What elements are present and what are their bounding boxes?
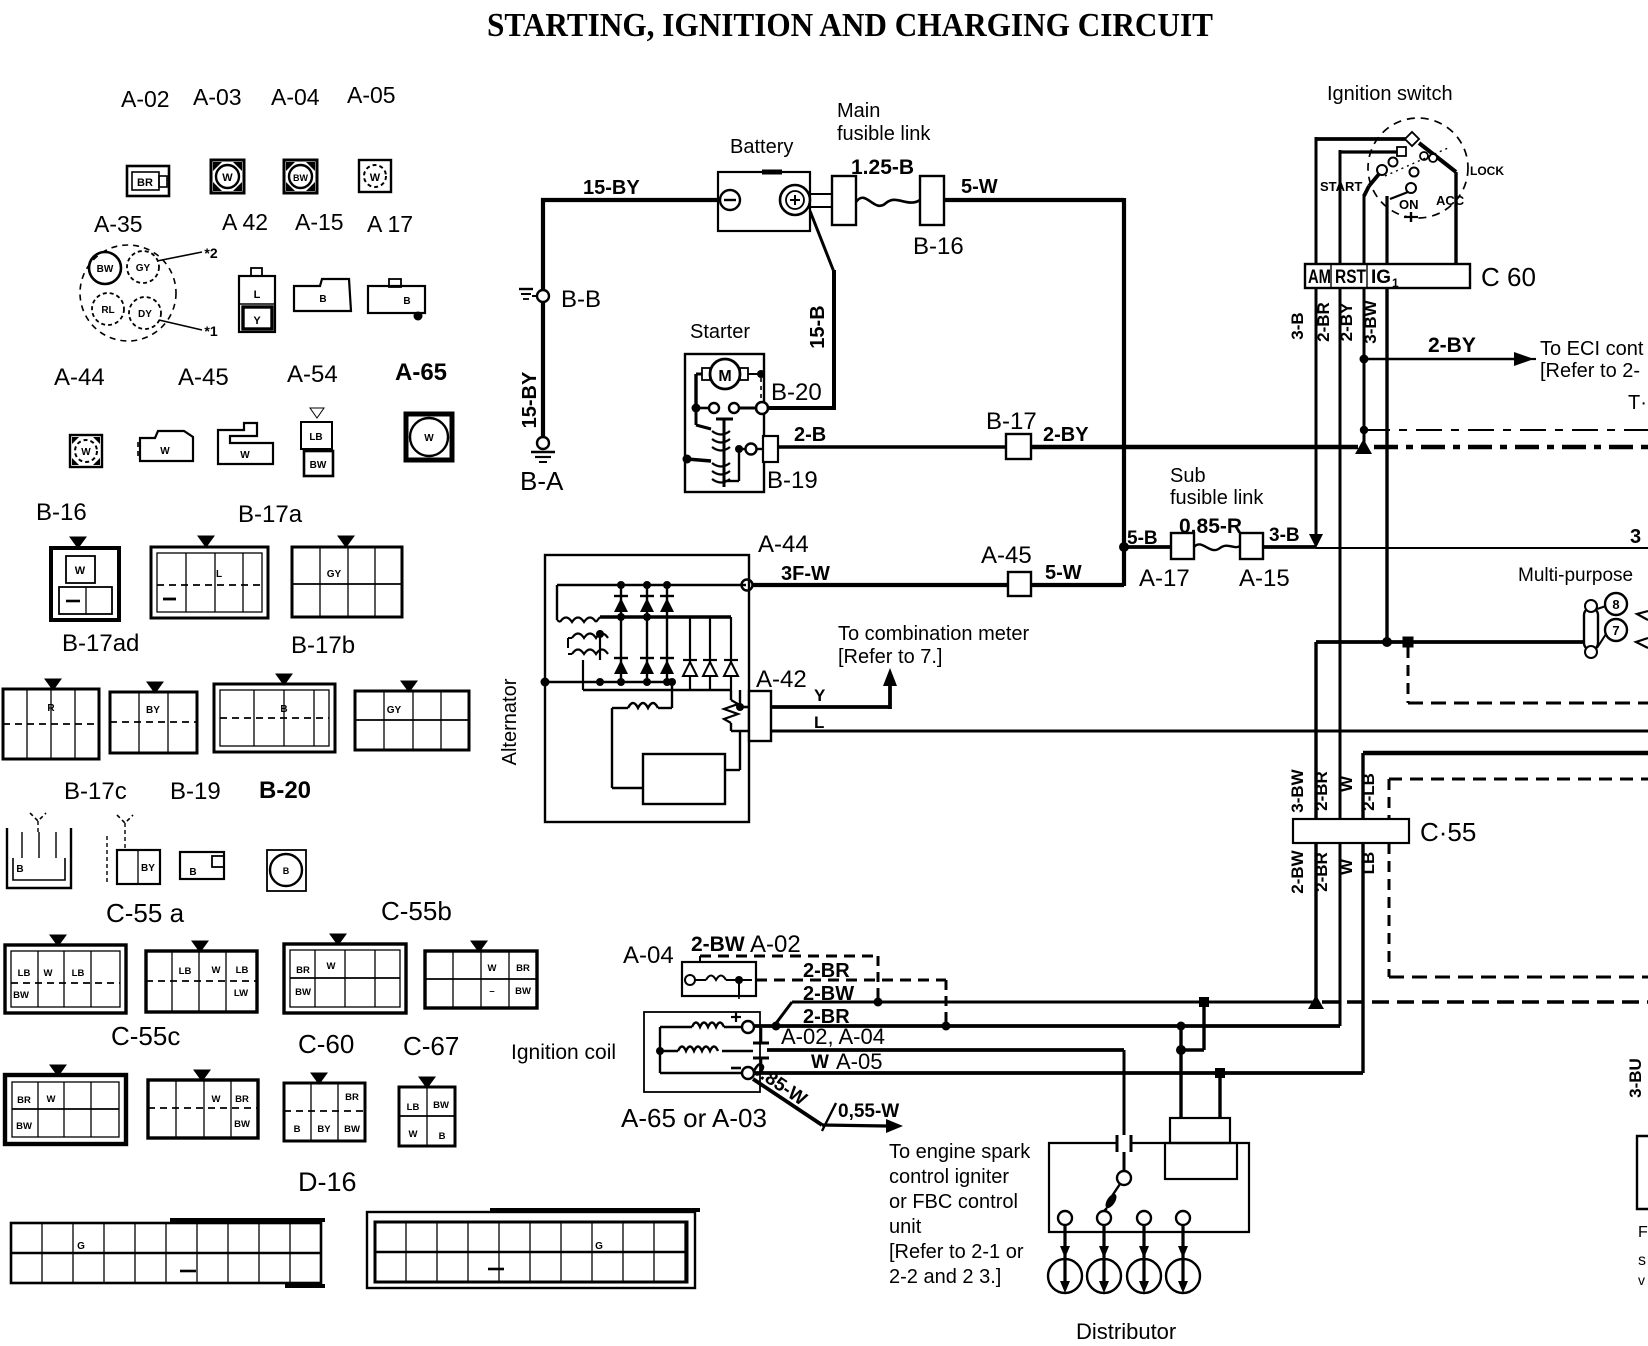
svg-text:A-04: A-04 xyxy=(271,84,320,110)
connector C-60 icon xyxy=(284,934,406,1013)
wire W feed from right xyxy=(1363,753,1648,1073)
svg-text:2-BR: 2-BR xyxy=(1314,302,1333,342)
wire L to right xyxy=(771,730,1648,733)
svg-text:3-BU: 3-BU xyxy=(1626,1058,1645,1098)
svg-text:LOCK: LOCK xyxy=(1470,164,1504,178)
svg-text:B-17a: B-17a xyxy=(238,501,303,528)
svg-text:[Refer to 7.]: [Refer to 7.] xyxy=(838,646,943,668)
svg-text:W: W xyxy=(1337,858,1356,875)
svg-text:LB: LB xyxy=(1359,852,1378,875)
connector A-42 icon xyxy=(239,268,275,332)
svg-text:W: W xyxy=(409,1129,418,1140)
ignition switch START wire xyxy=(1364,165,1387,264)
dashed drop from fuse wire xyxy=(1408,647,1648,703)
svg-text:A 42: A 42 xyxy=(222,209,268,235)
svg-text:W: W xyxy=(212,1094,221,1105)
svg-text:Y: Y xyxy=(253,315,261,327)
svg-text:2-B: 2-B xyxy=(794,424,826,446)
box fragment at right edge xyxy=(1637,1136,1648,1209)
svg-text:3: 3 xyxy=(1630,526,1641,548)
svg-text:BW: BW xyxy=(13,990,29,1001)
svg-text:2-BR: 2-BR xyxy=(1312,771,1331,811)
svg-text:LB: LB xyxy=(407,1102,420,1113)
svg-text:BW: BW xyxy=(433,1100,449,1111)
wire 2-BW horizontal xyxy=(772,997,1314,1031)
svg-text:*1: *1 xyxy=(204,323,217,339)
svg-text:3F-W: 3F-W xyxy=(781,563,830,585)
wire 5-W from fusible link xyxy=(944,198,1124,202)
svg-text:ON: ON xyxy=(1399,197,1419,212)
svg-text:Y: Y xyxy=(814,686,826,705)
wire 3-BW vertical from C-60 xyxy=(1382,288,1392,647)
wire to multi-purpose fuse (thick) xyxy=(1316,637,1586,648)
svg-text:8: 8 xyxy=(1612,597,1619,612)
ignition coil + terminal xyxy=(731,1012,754,1033)
alternator diode columns xyxy=(621,585,667,682)
svg-text:AM: AM xyxy=(1308,267,1331,288)
svg-text:W: W xyxy=(47,1094,56,1105)
svg-text:W: W xyxy=(212,965,221,976)
wire 3-BW / 2-BW vertical through C-55 xyxy=(1314,642,1317,1002)
svg-text:BR: BR xyxy=(235,1094,249,1105)
svg-text:BW: BW xyxy=(295,987,311,998)
svg-text:2-BR: 2-BR xyxy=(1312,852,1331,892)
connector A-03 icon xyxy=(211,160,244,193)
svg-text:3-B: 3-B xyxy=(1288,312,1307,339)
svg-text:W: W xyxy=(222,172,233,184)
svg-text:STARTING, IGNITION AND CHARGIN: STARTING, IGNITION AND CHARGING CIRCUIT xyxy=(487,7,1213,44)
svg-text:2-BY: 2-BY xyxy=(1337,302,1356,341)
connector B-17 on wire xyxy=(1006,434,1031,459)
junction arrow 2-BY xyxy=(1355,439,1372,454)
ignition coil left link xyxy=(656,1027,742,1073)
svg-text:B-17c: B-17c xyxy=(64,778,127,805)
alternator stator coils xyxy=(557,617,608,660)
svg-text:A-15: A-15 xyxy=(1239,565,1290,592)
svg-text:A-17: A-17 xyxy=(1139,565,1190,592)
svg-text:15-BY: 15-BY xyxy=(519,371,541,428)
svg-text:B-16: B-16 xyxy=(913,233,964,260)
svg-text:W: W xyxy=(370,172,381,184)
svg-text:W: W xyxy=(327,961,336,972)
battery xyxy=(718,172,810,231)
svg-text:Multi-purpose: Multi-purpose xyxy=(1518,565,1633,586)
svg-text:BR: BR xyxy=(17,1095,31,1106)
starter solenoid hold-in coil xyxy=(683,451,740,483)
svg-text:2-BR: 2-BR xyxy=(803,960,850,982)
svg-text:B-17b: B-17b xyxy=(291,632,355,659)
svg-text:B-17ad: B-17ad xyxy=(62,630,139,657)
svg-text:1: 1 xyxy=(1392,276,1399,290)
svg-text:LB: LB xyxy=(309,432,322,443)
connector D-16 icon 4 xyxy=(399,1077,455,1146)
connector A-35 icon (4-pin round) xyxy=(80,245,176,341)
svg-text:LB: LB xyxy=(18,968,31,979)
connector strip 1 (bottom left) xyxy=(11,1220,325,1286)
wire 3-B vertical from C-60 AM xyxy=(1309,288,1323,548)
svg-text:LB: LB xyxy=(179,966,192,977)
svg-text:BY: BY xyxy=(146,705,160,716)
spark plugs xyxy=(1048,1225,1200,1293)
connector A-54 LB/BW icon xyxy=(301,408,333,476)
ignition switch AM wire xyxy=(1316,132,1419,264)
connector C-55a round icon xyxy=(267,850,306,891)
svg-text:2-BW: 2-BW xyxy=(691,933,745,956)
svg-text:C-67: C-67 xyxy=(403,1031,459,1061)
wire 2-BY vertical from C-60 xyxy=(1360,288,1369,447)
svg-text:C-60: C-60 xyxy=(298,1029,354,1059)
svg-text:BW: BW xyxy=(310,460,327,471)
svg-text:DY: DY xyxy=(138,309,152,320)
connector B-20 icon xyxy=(214,674,335,752)
svg-text:A-44: A-44 xyxy=(54,364,105,391)
wire 2-BR vertical from C-60 xyxy=(1339,288,1342,819)
connector C-55 block xyxy=(1293,819,1409,843)
svg-text:BR: BR xyxy=(345,1092,359,1103)
svg-text:B-B: B-B xyxy=(561,286,601,313)
wire 2-BY thick to ignition switch column xyxy=(1031,445,1358,449)
connector D-16 icon 1 xyxy=(5,1065,126,1144)
svg-text:A-04: A-04 xyxy=(623,942,674,969)
connector A-02 icon xyxy=(127,166,169,196)
wire 5-W vertical drop xyxy=(1122,198,1126,586)
svg-text:[Refer to 2-: [Refer to 2- xyxy=(1540,360,1640,382)
wire W from coil - to C-55 xyxy=(754,1068,1363,1119)
svg-text:BR: BR xyxy=(516,963,530,974)
svg-text:BY: BY xyxy=(317,1124,331,1135)
dashed wire 2-BW A-02 upper xyxy=(700,956,883,1007)
svg-text:A-45: A-45 xyxy=(981,542,1032,569)
svg-text:C-55b: C-55b xyxy=(381,896,452,926)
svg-text:A-35: A-35 xyxy=(94,211,143,237)
svg-text:A-15: A-15 xyxy=(295,209,344,235)
svg-text:BR: BR xyxy=(296,965,310,976)
connector B-20b icon xyxy=(355,681,469,750)
svg-text:LB: LB xyxy=(236,965,249,976)
svg-text:BW: BW xyxy=(16,1121,32,1132)
svg-text:C-55c: C-55c xyxy=(111,1021,180,1051)
connector C-55c icon 1 xyxy=(5,935,126,1013)
multi-purpose fuse capsule xyxy=(1584,600,1598,658)
svg-text:5-W: 5-W xyxy=(1045,562,1082,584)
svg-text:W: W xyxy=(44,968,53,979)
svg-text:C 60: C 60 xyxy=(1481,262,1536,292)
svg-text:L: L xyxy=(216,569,222,580)
fuse circuit 8 xyxy=(1597,593,1627,615)
connector A-65 icon xyxy=(406,414,452,460)
pin pointer *2 of A-35 xyxy=(157,245,218,261)
ignition coil primary winding xyxy=(660,1023,742,1028)
connector A-54 icon xyxy=(218,423,273,464)
svg-text:Distributor: Distributor xyxy=(1076,1319,1176,1344)
junction dot at 5-B xyxy=(1119,542,1129,552)
ignition switch R wire xyxy=(1340,147,1406,264)
svg-text:15-BY: 15-BY xyxy=(583,177,640,199)
svg-text:A-44: A-44 xyxy=(758,531,809,558)
svg-text:Main: Main xyxy=(837,100,880,122)
svg-text:2-LB: 2-LB xyxy=(1359,773,1378,811)
ground B-A node xyxy=(531,437,555,462)
svg-text:–: – xyxy=(489,986,494,997)
svg-text:B-20: B-20 xyxy=(771,379,822,406)
wire HT lead from coil xyxy=(722,1050,1124,1171)
svg-text:1.25-B: 1.25-B xyxy=(851,156,914,179)
ignition switch ON contact and IG1 wire xyxy=(1387,183,1418,264)
connector A-15 icon xyxy=(294,279,351,311)
wire 3-B out of sub link xyxy=(1263,545,1316,549)
ground B-B node xyxy=(519,289,549,302)
svg-text:W: W xyxy=(424,433,434,444)
svg-text:W: W xyxy=(488,963,497,974)
svg-text:A-54: A-54 xyxy=(287,361,338,388)
connector B-19 on wire xyxy=(763,436,778,462)
alternator resistor xyxy=(724,690,749,731)
distributor breaker points xyxy=(1101,1171,1131,1214)
dash-dot thin line xyxy=(1360,426,1648,434)
svg-text:L: L xyxy=(814,713,824,732)
connector B-16 icon xyxy=(51,537,119,620)
svg-text:Ignition switch: Ignition switch xyxy=(1327,83,1453,105)
main fusible link B-16 xyxy=(808,176,944,225)
svg-text:[Refer to 2-1 or: [Refer to 2-1 or xyxy=(889,1241,1024,1263)
svg-text:2-2 and 2 3.]: 2-2 and 2 3.] xyxy=(889,1266,1001,1288)
wire 15-B from battery positive xyxy=(760,211,836,410)
svg-text:A-42: A-42 xyxy=(756,666,807,693)
connector D-16 icon 2 xyxy=(148,1070,258,1138)
alternator top bus xyxy=(557,581,746,620)
svg-text:unit: unit xyxy=(889,1216,922,1238)
wire 0.85-W diagonal with arrow xyxy=(753,1079,903,1133)
svg-text:BW: BW xyxy=(515,986,531,997)
svg-text:v: v xyxy=(1638,1272,1645,1288)
svg-text:Sub: Sub xyxy=(1170,465,1206,487)
svg-text:W: W xyxy=(75,565,86,577)
wire 2-B from starter xyxy=(778,445,1008,448)
svg-text:7: 7 xyxy=(1612,623,1619,638)
svg-text:L: L xyxy=(254,289,261,301)
svg-text:BW: BW xyxy=(293,173,308,183)
svg-text:B: B xyxy=(16,864,23,875)
svg-text:A-65: A-65 xyxy=(395,359,447,386)
sub fusible link A-17/A-15 xyxy=(1171,533,1263,559)
starter plunger xyxy=(716,419,733,487)
starter solenoid contacts xyxy=(692,374,769,414)
connector C-55a pin icon xyxy=(7,813,71,888)
ignition coil secondary winding xyxy=(660,1047,718,1052)
svg-text:W: W xyxy=(811,1052,829,1073)
note To engine spark control igniter xyxy=(889,1141,1031,1288)
svg-text:or FBC control: or FBC control xyxy=(889,1191,1018,1213)
svg-text:W: W xyxy=(1337,775,1356,792)
connector B-17b icon xyxy=(292,536,402,617)
wire 3-B thin to fuse block xyxy=(1316,547,1648,549)
svg-text:START: START xyxy=(1320,179,1362,194)
svg-text:BY: BY xyxy=(141,863,155,874)
svg-text:*2: *2 xyxy=(204,245,217,261)
distributor box xyxy=(1049,1143,1249,1232)
svg-text:BW: BW xyxy=(234,1119,250,1130)
svg-text:B: B xyxy=(319,294,326,305)
svg-text:B-20: B-20 xyxy=(259,777,311,804)
svg-text:R: R xyxy=(47,703,55,714)
svg-text:To engine spark: To engine spark xyxy=(889,1141,1031,1163)
svg-text:A-05: A-05 xyxy=(347,82,396,108)
distributor contacts xyxy=(1058,1211,1190,1225)
alternator trio diodes xyxy=(683,617,738,690)
svg-text:B-16: B-16 xyxy=(36,499,87,526)
svg-text:3-BW: 3-BW xyxy=(1288,768,1307,812)
svg-text:GY: GY xyxy=(387,705,402,716)
wire 3F-W / 5-W from alternator xyxy=(742,580,1125,591)
svg-text:Alternator: Alternator xyxy=(499,678,521,765)
wire 2-LB dashed feed from right xyxy=(1389,779,1648,977)
svg-text:B-17: B-17 xyxy=(986,408,1037,435)
wire to distributor cap center xyxy=(1179,1050,1182,1119)
ignition coil - terminal xyxy=(731,1067,754,1079)
svg-text:RST: RST xyxy=(1335,267,1366,288)
noise condenser A-04 xyxy=(682,962,756,1001)
connector C-67 icon xyxy=(425,941,537,1008)
svg-text:To ECI cont: To ECI cont xyxy=(1540,338,1644,360)
svg-text:Ignition coil: Ignition coil xyxy=(511,1041,616,1064)
fuse capsule at edge xyxy=(1637,611,1648,620)
svg-text:B: B xyxy=(294,1124,301,1135)
dashed 2-BW continuation right xyxy=(1322,1000,1648,1003)
svg-text:B: B xyxy=(280,704,287,715)
connector B-19 icon xyxy=(110,682,197,753)
svg-text:0,55-W: 0,55-W xyxy=(838,1101,899,1122)
svg-text:ACC: ACC xyxy=(1436,193,1465,208)
svg-text:B-19: B-19 xyxy=(767,467,818,494)
svg-text:2-BW: 2-BW xyxy=(1288,849,1307,893)
svg-text:LW: LW xyxy=(234,988,248,999)
svg-text:3-BW: 3-BW xyxy=(1361,299,1380,343)
svg-text:GY: GY xyxy=(136,263,151,274)
svg-text:RL: RL xyxy=(101,305,114,316)
alternator regulator box xyxy=(612,708,740,804)
svg-text:B-19: B-19 xyxy=(170,778,221,805)
starter box xyxy=(685,354,764,492)
svg-text:G: G xyxy=(595,1241,603,1252)
pin pointer *1 of A-35 xyxy=(159,320,218,339)
connector A-45 on wire xyxy=(1008,572,1031,596)
alternator box xyxy=(545,555,749,822)
alternator mid bus xyxy=(600,613,731,621)
svg-text:B: B xyxy=(403,296,410,307)
wire 5-B xyxy=(1124,545,1172,549)
svg-text:W: W xyxy=(160,446,170,457)
jog 2-BR to 2-BW xyxy=(1176,1002,1204,1055)
svg-text:A-03: A-03 xyxy=(193,84,242,110)
svg-text:To combination meter: To combination meter xyxy=(838,623,1030,645)
ignition switch contact points xyxy=(1385,148,1448,177)
connector B-17c icon xyxy=(3,679,99,759)
starter motor M xyxy=(702,359,765,401)
ignition switch dashed circle xyxy=(1368,118,1468,218)
svg-text:B: B xyxy=(439,1131,446,1142)
connector A-45 icon xyxy=(138,431,193,461)
svg-text:BR: BR xyxy=(137,177,153,189)
alternator main diodes xyxy=(614,596,674,674)
svg-text:3-B: 3-B xyxy=(1269,525,1300,546)
connector C-60 block xyxy=(1305,264,1470,290)
wire 15-BY horizontal (battery negative feed) xyxy=(541,198,720,202)
svg-text:T·: T· xyxy=(1628,392,1647,414)
connector strip 2 (bottom) xyxy=(367,1210,700,1288)
connector A-04 icon xyxy=(284,160,317,193)
svg-text:IG: IG xyxy=(1371,267,1391,288)
ignition coil box xyxy=(644,1012,760,1092)
connector B-17a icon xyxy=(151,536,268,618)
connector C-55c icon 2 xyxy=(146,941,257,1012)
svg-text:control igniter: control igniter xyxy=(889,1166,1009,1188)
svg-text:5-W: 5-W xyxy=(961,176,998,198)
junction arrow 2-BW at C-55 drop xyxy=(1308,995,1324,1009)
distributor condenser xyxy=(1117,1135,1131,1152)
svg-text:Starter: Starter xyxy=(690,321,750,343)
svg-text:C·55: C·55 xyxy=(1420,817,1476,847)
svg-text:fusible link: fusible link xyxy=(1170,487,1264,509)
alternator lower bus xyxy=(541,660,732,690)
svg-text:A-65 or A-03: A-65 or A-03 xyxy=(621,1103,767,1133)
svg-text:A-02: A-02 xyxy=(121,86,170,112)
svg-text:W: W xyxy=(81,447,91,458)
svg-text:A-05: A-05 xyxy=(836,1049,882,1074)
wire Y to combination meter xyxy=(771,668,897,709)
svg-text:GY: GY xyxy=(327,569,342,580)
dashed 2-LB turn to right xyxy=(1389,976,1648,979)
ignition coil HT tower xyxy=(753,1028,769,1070)
svg-text:Battery: Battery xyxy=(730,136,793,158)
fuse circuit 7 xyxy=(1597,619,1627,648)
connector A-17 icon xyxy=(368,279,425,321)
dash-dot wire continuation right (2-BY) xyxy=(1374,445,1648,449)
connector C-55a BY icon xyxy=(107,815,160,884)
svg-text:D-16: D-16 xyxy=(298,1167,357,1197)
svg-text:fusible link: fusible link xyxy=(837,123,931,145)
alternator field coil xyxy=(612,678,676,708)
svg-text:W: W xyxy=(240,450,250,461)
wire 2-BY branch to ECI xyxy=(1364,352,1536,366)
connector A-42 on alternator xyxy=(749,691,771,741)
svg-text:2-BY: 2-BY xyxy=(1043,424,1089,446)
svg-text:LB: LB xyxy=(72,968,85,979)
svg-text:s: s xyxy=(1638,1252,1646,1269)
svg-text:15-B: 15-B xyxy=(807,305,829,348)
svg-text:BW: BW xyxy=(344,1124,360,1135)
svg-text:B: B xyxy=(189,867,196,878)
svg-text:F: F xyxy=(1638,1224,1648,1241)
svg-text:A 17: A 17 xyxy=(367,211,413,237)
svg-text:M: M xyxy=(718,368,731,385)
svg-text:A-45: A-45 xyxy=(178,364,229,391)
svg-text:2-BY: 2-BY xyxy=(1428,334,1476,357)
svg-text:BW: BW xyxy=(97,264,114,275)
svg-text:G: G xyxy=(77,1241,85,1252)
text fragments at right edge xyxy=(1638,1224,1648,1288)
wire 15-BY vertical down to grounds xyxy=(541,198,545,440)
dashed wire 2-BR from condenser xyxy=(756,980,951,1031)
connector A-44 icon xyxy=(70,435,102,467)
starter solenoid pull-in coil xyxy=(696,411,763,455)
connector A-05 icon xyxy=(359,160,391,192)
svg-text:C-55 a: C-55 a xyxy=(106,898,185,928)
connector C-55a B tab icon xyxy=(180,852,224,879)
wire 2-BR horizontal from coil + xyxy=(754,1022,1340,1031)
svg-text:B-A: B-A xyxy=(520,466,564,496)
connector D-16 icon 3 xyxy=(284,1073,365,1141)
distributor cap xyxy=(1165,1118,1237,1179)
